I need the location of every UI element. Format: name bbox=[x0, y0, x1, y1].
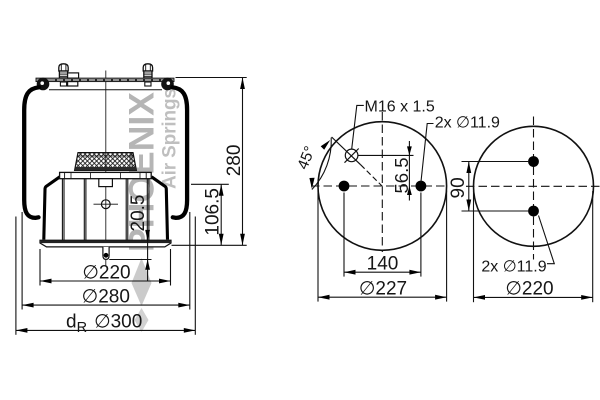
dimension dR D300 (left view) bbox=[16, 217, 195, 337]
side view center line bbox=[105, 71, 107, 267]
dimension 280 (height) bbox=[172, 78, 247, 246]
svg-text:∅227: ∅227 bbox=[359, 279, 407, 300]
bolt left clamp blocks bbox=[68, 73, 79, 86]
M16 fitting symbol bbox=[332, 137, 361, 165]
top view circle (middle) bbox=[318, 122, 447, 251]
watermark logo diamond bbox=[132, 258, 152, 332]
svg-text:56.5: 56.5 bbox=[391, 157, 412, 193]
bolt right bbox=[143, 64, 152, 86]
dimension 140 bbox=[344, 193, 421, 277]
right vertical center line bbox=[533, 117, 535, 260]
svg-text:∅280: ∅280 bbox=[82, 286, 130, 307]
piston top plate bbox=[60, 172, 152, 178]
svg-text:90: 90 bbox=[448, 177, 469, 198]
bottom center bolt bbox=[103, 247, 109, 260]
bellows lobe inner wall right bbox=[152, 177, 168, 240]
dimension D220 (left view) bbox=[40, 249, 171, 286]
svg-text:Air Springs: Air Springs bbox=[160, 88, 181, 189]
bellows lobe inner wall left bbox=[44, 177, 60, 240]
middle vertical center line bbox=[381, 112, 383, 252]
svg-text:20.5: 20.5 bbox=[128, 195, 149, 232]
leader M16 bbox=[352, 105, 364, 149]
piston bolt pocket notch bbox=[99, 179, 113, 187]
bolt hole top (right circle) bbox=[528, 156, 539, 167]
bead curl right bbox=[161, 78, 174, 91]
dimension 90 bbox=[448, 162, 528, 212]
svg-text:2x ∅11.9: 2x ∅11.9 bbox=[481, 258, 546, 275]
bellows outer wall left bbox=[24, 87, 39, 218]
watermark Air Springs bbox=[160, 88, 181, 189]
dashed 45 deg line to center bbox=[361, 165, 384, 188]
bolt left bbox=[59, 64, 68, 86]
svg-text:106.5: 106.5 bbox=[202, 188, 223, 236]
45 degree arc bbox=[309, 138, 331, 190]
dimension D220 (right view) bbox=[474, 191, 593, 302]
bolt hole left (middle circle) bbox=[339, 181, 350, 192]
top plate bbox=[36, 78, 174, 82]
dimension 106.5 bbox=[191, 184, 229, 245]
svg-text:M16 x 1.5: M16 x 1.5 bbox=[365, 98, 435, 115]
piston center mark bbox=[94, 200, 119, 209]
bottom view circle (right) bbox=[474, 126, 594, 246]
watermark PHOENIX bbox=[122, 92, 162, 252]
right horizontal center line bbox=[466, 185, 600, 187]
bolt hole bottom (right circle) bbox=[528, 206, 539, 217]
bellows top edge line bbox=[49, 89, 162, 91]
piston barrel walls bbox=[62, 179, 148, 241]
dimension 20.5 bbox=[109, 195, 151, 282]
bead curl left bbox=[37, 78, 50, 91]
dimension D280 (left view) bbox=[22, 212, 190, 310]
svg-text:∅220: ∅220 bbox=[505, 279, 553, 300]
svg-text:140: 140 bbox=[367, 254, 399, 275]
svg-text:∅220: ∅220 bbox=[82, 262, 130, 283]
dimension D227 bbox=[318, 191, 447, 302]
dimension 56.5 bbox=[358, 141, 414, 201]
bolt hole right (middle circle) bbox=[416, 181, 427, 192]
piston bottom plate bbox=[40, 240, 171, 247]
svg-text:2x ∅11.9: 2x ∅11.9 bbox=[435, 115, 500, 132]
piston crosshatch bumper bbox=[75, 153, 137, 171]
middle horizontal center line bbox=[311, 185, 449, 187]
svg-text:280: 280 bbox=[224, 145, 245, 177]
leader 2x 11.9 (middle) bbox=[421, 124, 434, 183]
bellows outer wall right bbox=[172, 87, 187, 218]
leader 2x 11.9 (right) bbox=[539, 216, 555, 264]
